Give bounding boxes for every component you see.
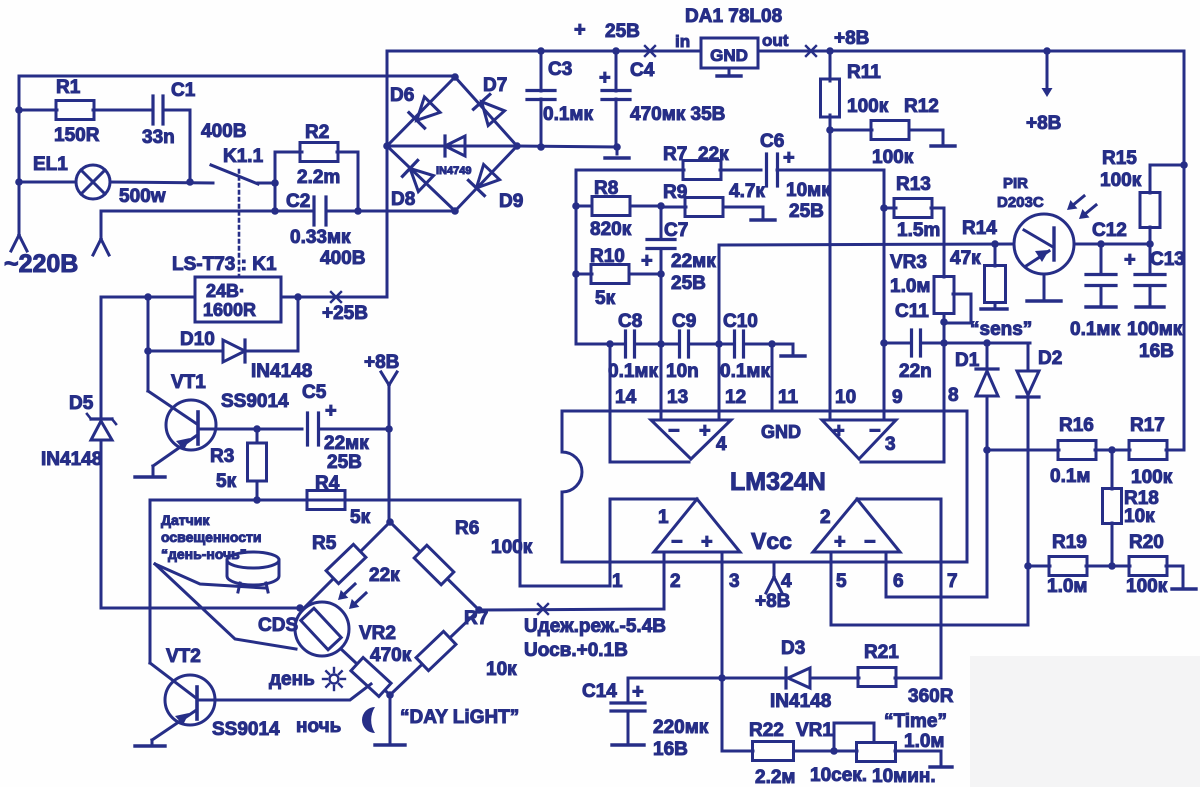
- node R19 left: [1024, 562, 1032, 570]
- node C12: [1097, 240, 1105, 248]
- svg-text:0.1мк: 0.1мк: [608, 361, 658, 382]
- node bridge left: [383, 142, 391, 150]
- wire bridge right to ground: [517, 146, 617, 147]
- svg-text:22к: 22к: [698, 144, 729, 165]
- regulator DA1 78L08: [701, 38, 758, 68]
- svg-text:PIR: PIR: [1003, 175, 1028, 192]
- resistor R2: [300, 143, 338, 162]
- node bridge bottom: [451, 207, 459, 215]
- svg-text:9: 9: [892, 387, 903, 408]
- resistor R5: [326, 544, 366, 583]
- node C5 right: [385, 425, 393, 433]
- node R18 bottom: [1108, 562, 1116, 570]
- resistor R16: [987, 449, 1059, 452]
- svg-text:+: +: [699, 420, 711, 442]
- svg-text:1: 1: [658, 507, 669, 528]
- svg-text:−: −: [668, 420, 680, 442]
- svg-text:VT1: VT1: [171, 372, 206, 393]
- svg-text:+: +: [783, 147, 795, 169]
- svg-text:Датчик: Датчик: [161, 512, 210, 528]
- wire C1 to lamp row: [163, 110, 190, 182]
- node R8 right: [657, 202, 665, 210]
- wire bridge frame: [387, 77, 517, 211]
- diode D6: [417, 97, 440, 120]
- svg-text:R14: R14: [962, 218, 997, 239]
- capacitor C12: [1100, 244, 1103, 272]
- node pin13 top: [657, 340, 665, 348]
- svg-text:D2: D2: [1038, 348, 1062, 369]
- wire R11 vertical: [829, 51, 832, 81]
- ground lamp bridge: [389, 695, 392, 744]
- node C3 top: [537, 47, 545, 55]
- wire pin3 column: [721, 562, 724, 751]
- svg-text:470мк 35В: 470мк 35В: [630, 104, 725, 125]
- svg-text:out: out: [762, 31, 789, 50]
- wire R1 row: [19, 109, 57, 112]
- svg-text:IN4749: IN4749: [436, 165, 471, 177]
- sensor cylinder: [227, 552, 279, 568]
- svg-text:+: +: [632, 681, 644, 703]
- resistor VR3: [934, 277, 954, 314]
- svg-text:2: 2: [820, 507, 831, 528]
- svg-text:100к: 100к: [1126, 576, 1168, 597]
- node R14: [991, 240, 999, 248]
- diode D10: [223, 340, 245, 362]
- svg-text:VT2: VT2: [166, 646, 201, 667]
- svg-text:GND: GND: [710, 46, 748, 65]
- resistor VR2: [351, 658, 391, 697]
- svg-text:R10: R10: [590, 246, 625, 267]
- svg-text:2: 2: [670, 571, 681, 592]
- node R17 left: [1108, 446, 1116, 454]
- svg-text:400B: 400B: [201, 121, 246, 142]
- x mark +25B: [331, 292, 341, 302]
- svg-text:C7: C7: [664, 220, 688, 241]
- svg-text:1: 1: [612, 571, 623, 592]
- node pin12 top: [715, 340, 723, 348]
- callout lines: [155, 564, 265, 588]
- node C1 bottom: [186, 178, 194, 186]
- node C3 bottom: [537, 143, 545, 151]
- svg-text:C14: C14: [582, 681, 617, 702]
- wire R22 row: [722, 750, 753, 753]
- svg-text:0.1мк: 0.1мк: [543, 104, 593, 125]
- svg-text:100к: 100к: [491, 537, 533, 558]
- node R10 right: [657, 270, 665, 278]
- resistor R20: [1129, 557, 1167, 576]
- svg-text:+: +: [834, 531, 846, 553]
- capacitor C3: [540, 51, 543, 91]
- wire U1a output pin1 loop: [150, 499, 697, 586]
- node +8B tap: [1043, 47, 1051, 55]
- terminal +8B fork: [381, 372, 389, 385]
- svg-text:Vcc: Vcc: [751, 528, 792, 554]
- svg-text:500w: 500w: [119, 186, 166, 207]
- diode IN4749 center: [387, 145, 517, 148]
- svg-text:25В: 25В: [789, 201, 824, 222]
- op-amp U1a triangle: [654, 499, 740, 552]
- resistor R8: [576, 205, 592, 208]
- diode D7: [482, 102, 505, 126]
- svg-text:+8В: +8В: [1026, 113, 1061, 134]
- capacitor C9: [678, 331, 681, 357]
- moon symbol: [362, 707, 375, 733]
- node VT1 base: [253, 425, 261, 433]
- node C4 top: [612, 47, 620, 55]
- wire top-left horizontal to bridge top: [19, 75, 455, 78]
- svg-text:C8: C8: [618, 311, 642, 332]
- svg-text:−: −: [671, 531, 683, 553]
- svg-text:22мк: 22мк: [324, 433, 369, 454]
- wire R2 bypass loop: [275, 152, 302, 211]
- svg-text:4: 4: [716, 434, 727, 455]
- svg-text:0.1м: 0.1м: [1050, 466, 1090, 487]
- wire C14 branch: [628, 678, 722, 701]
- wire relay right: [281, 296, 387, 299]
- svg-text:100мк: 100мк: [1127, 319, 1183, 340]
- op-amp U1d triangle: [651, 420, 731, 459]
- svg-text:+: +: [574, 19, 586, 41]
- resistor R13: [884, 207, 896, 210]
- svg-text:16В: 16В: [653, 739, 688, 760]
- svg-text:10сек.: 10сек.: [810, 765, 867, 786]
- node C2 right: [354, 207, 362, 215]
- svg-text:D5: D5: [69, 393, 94, 414]
- wire U1b output pin7: [857, 499, 941, 678]
- svg-text:150R: 150R: [54, 125, 100, 146]
- svg-text:освещенности: освещенности: [161, 529, 262, 545]
- sun symbol: [330, 675, 339, 684]
- svg-text:100к: 100к: [1100, 170, 1142, 191]
- svg-text:−: −: [864, 531, 876, 553]
- svg-text:EL1: EL1: [33, 154, 68, 175]
- capacitor C1: [151, 96, 154, 124]
- svg-text:22к: 22к: [369, 565, 400, 586]
- wire C6 to pin9 column: [777, 169, 884, 172]
- svg-text:470к: 470к: [370, 645, 412, 666]
- wire pin6 route: [886, 450, 987, 597]
- svg-text:DA1 78L08: DA1 78L08: [685, 6, 782, 27]
- svg-text:1.0м: 1.0м: [904, 731, 944, 752]
- svg-text:LM324N: LM324N: [730, 468, 826, 496]
- wire pin14 into IC: [610, 344, 689, 462]
- wire pin5 route: [831, 562, 1028, 625]
- resistor R21: [858, 668, 896, 687]
- node relay right: [294, 293, 302, 301]
- svg-text:R2: R2: [305, 122, 329, 143]
- svg-text:820к: 820к: [590, 219, 632, 240]
- svg-text:D9: D9: [499, 191, 523, 212]
- resistor R14: [994, 244, 997, 266]
- svg-text:C2: C2: [286, 191, 310, 212]
- svg-text:R22: R22: [749, 720, 784, 741]
- capacitor C13: [1149, 244, 1152, 272]
- svg-text:6: 6: [893, 571, 904, 592]
- x mark after DA1: [806, 46, 816, 56]
- svg-text:Uдеж.реж.-5.4В: Uдеж.реж.-5.4В: [524, 616, 666, 637]
- svg-text:C10: C10: [723, 311, 758, 332]
- resistor R17: [1129, 441, 1167, 460]
- svg-text:C3: C3: [548, 59, 572, 80]
- node pin11 top: [768, 340, 776, 348]
- svg-text:день: день: [269, 669, 315, 690]
- node C2 left: [271, 207, 279, 215]
- op-amp IC LM324N body: [562, 411, 967, 562]
- svg-text:R13: R13: [896, 174, 931, 195]
- svg-text:R16: R16: [1059, 415, 1094, 436]
- svg-text:D7: D7: [483, 75, 507, 96]
- svg-text:+8В: +8В: [834, 28, 869, 49]
- node CDS: [296, 604, 304, 612]
- diode D3: [722, 677, 786, 680]
- svg-text:25В: 25В: [327, 452, 362, 473]
- wire bridge left up to +25 rail: [387, 51, 541, 297]
- svg-text:8: 8: [948, 385, 959, 406]
- svg-text:3: 3: [729, 571, 740, 592]
- svg-text:220мк: 220мк: [653, 717, 709, 738]
- transistor VT2: [165, 675, 215, 725]
- svg-text:+: +: [325, 400, 337, 422]
- wire +8B column: [388, 385, 391, 429]
- svg-text:+8В: +8В: [755, 591, 790, 612]
- node bridge2 top: [386, 518, 394, 526]
- svg-text:ночь: ночь: [296, 716, 341, 737]
- svg-text:R12: R12: [904, 96, 939, 117]
- svg-text:5к: 5к: [595, 288, 616, 309]
- svg-text:R7: R7: [663, 144, 687, 165]
- svg-text:10n: 10n: [666, 361, 699, 382]
- svg-text:C9: C9: [672, 311, 696, 332]
- svg-text:1.0м: 1.0м: [890, 276, 930, 297]
- x mark U level: [538, 604, 548, 614]
- svg-text:C4: C4: [630, 60, 655, 81]
- relay link dotted: [238, 170, 241, 276]
- node R16 left: [983, 446, 991, 454]
- svg-text:GND: GND: [761, 422, 801, 442]
- node VR1 left: [830, 747, 838, 755]
- capacitor C10: [733, 331, 736, 357]
- node R3 bottom: [253, 496, 261, 504]
- wire pin11 leg: [771, 344, 774, 411]
- light arrows PIR: [1074, 196, 1084, 204]
- diode D5 zener: [100, 297, 103, 419]
- svg-text:IN4148: IN4148: [770, 691, 831, 712]
- svg-text:22n: 22n: [899, 361, 932, 382]
- capacitor C14: [611, 701, 645, 704]
- svg-text:R11: R11: [847, 62, 881, 83]
- wire pin2 to lamp bridge: [479, 562, 664, 610]
- switch K1.1: [211, 165, 258, 184]
- svg-text:0.33мк: 0.33мк: [290, 227, 351, 248]
- capacitor C8: [624, 331, 627, 357]
- svg-text:VR2: VR2: [359, 623, 396, 644]
- node R15 top: [1180, 161, 1188, 169]
- resistor R10: [576, 273, 592, 276]
- resistor R22: [753, 742, 794, 761]
- node pin8 top: [940, 339, 948, 347]
- resistor R7b: [416, 631, 456, 670]
- op-amp U1b triangle: [813, 499, 900, 552]
- svg-text:47к: 47к: [950, 248, 981, 269]
- svg-text:R3: R3: [210, 446, 234, 467]
- wire pin4 +8B: [773, 562, 776, 577]
- resistor R7: [683, 161, 721, 180]
- node switch: [271, 179, 279, 187]
- svg-text:360R: 360R: [908, 686, 954, 707]
- svg-text:C12: C12: [1092, 220, 1127, 241]
- svg-text:R15: R15: [1102, 148, 1137, 169]
- svg-text:D1: D1: [955, 350, 980, 371]
- svg-text:33n: 33n: [142, 127, 175, 148]
- svg-text:D6: D6: [390, 85, 414, 106]
- svg-text:CDS: CDS: [258, 615, 298, 636]
- node A2: [15, 178, 23, 186]
- light arrows CDS: [345, 584, 355, 594]
- capacitor C7: [660, 206, 663, 237]
- svg-text:R17: R17: [1130, 415, 1165, 436]
- wire R7 row: [575, 170, 578, 344]
- node bridge right: [513, 142, 521, 150]
- resistor R19: [1028, 565, 1050, 568]
- resistor R6: [414, 545, 454, 585]
- svg-text:R6: R6: [455, 518, 479, 539]
- svg-text:7: 7: [947, 571, 958, 592]
- svg-text:+: +: [599, 67, 611, 89]
- resistor R4: [307, 491, 345, 510]
- node C11 left: [880, 339, 888, 347]
- svg-text:R21: R21: [864, 642, 899, 663]
- terminal mains 1: [11, 235, 19, 251]
- wire U1a legs: [663, 552, 666, 562]
- wire left vertical mains: [18, 76, 21, 234]
- resistor R11: [821, 79, 840, 117]
- node VR3 tap: [940, 318, 948, 326]
- svg-text:100к: 100к: [1131, 467, 1173, 488]
- resistor R18: [1111, 450, 1114, 489]
- svg-text:1.5m: 1.5m: [897, 220, 940, 241]
- svg-text:12: 12: [725, 387, 746, 408]
- node R13 left: [880, 204, 888, 212]
- wire D10 branch: [147, 297, 150, 351]
- svg-text:1600R: 1600R: [203, 300, 256, 320]
- resistor R12: [830, 129, 872, 132]
- wire U1b legs: [830, 552, 833, 562]
- svg-text:SS9014: SS9014: [221, 391, 289, 412]
- svg-text:C11: C11: [895, 301, 929, 322]
- x mark before DA1: [645, 46, 655, 56]
- svg-text:16В: 16В: [1139, 341, 1174, 362]
- svg-text:R5: R5: [312, 533, 337, 554]
- wire U1c output to pin8: [861, 343, 944, 462]
- svg-text:in: in: [675, 32, 690, 51]
- svg-text:IN4148: IN4148: [41, 449, 102, 470]
- wire sens row: [944, 342, 1030, 345]
- svg-text:VR3: VR3: [890, 252, 927, 273]
- svg-text:IN4148: IN4148: [251, 361, 312, 382]
- wire mains2 row: [101, 211, 314, 238]
- node sens: [983, 339, 991, 347]
- svg-text:2.2m: 2.2m: [297, 167, 340, 188]
- wire PIR to C13: [1074, 243, 1150, 246]
- node R8 left: [572, 202, 580, 210]
- svg-text:0.1мк: 0.1мк: [720, 361, 770, 382]
- svg-text:−: −: [869, 420, 881, 442]
- node relay left: [144, 293, 152, 301]
- wire VT2 base column: [149, 500, 152, 663]
- node D10 left: [144, 347, 152, 355]
- svg-text:C13: C13: [1150, 249, 1185, 270]
- node bridge2 right: [475, 606, 483, 614]
- sensor PIR D203C: [1014, 214, 1074, 274]
- svg-text:+25В: +25В: [322, 303, 368, 324]
- svg-text:“Time”: “Time”: [884, 711, 947, 732]
- shaded background region bottom right: [970, 656, 1200, 787]
- svg-text:VR1: VR1: [796, 720, 833, 741]
- lamp EL1: [76, 165, 110, 199]
- svg-text:~220В: ~220В: [4, 250, 78, 278]
- svg-text:R19: R19: [1052, 532, 1087, 553]
- svg-text:10к: 10к: [1124, 506, 1155, 527]
- node pin14: [606, 340, 614, 348]
- wire pin12 column up: [719, 244, 1014, 420]
- svg-text:SS9014: SS9014: [212, 719, 280, 740]
- ground C4: [616, 147, 619, 154]
- svg-text:R7: R7: [464, 608, 488, 629]
- diode D1: [986, 343, 989, 369]
- svg-text:0.1мк: 0.1мк: [1070, 319, 1120, 340]
- node C4 bottom: [613, 143, 621, 151]
- node R12: [826, 126, 834, 134]
- svg-text:R9: R9: [663, 182, 687, 203]
- svg-text:25В: 25В: [605, 21, 640, 42]
- wire relay row left: [101, 296, 195, 299]
- capacitor C11: [884, 342, 911, 345]
- node bridge top: [451, 73, 459, 81]
- svg-text:13: 13: [667, 387, 688, 408]
- wire right rail: [1183, 51, 1186, 450]
- svg-text:4.7к: 4.7к: [729, 181, 765, 202]
- svg-text:10мк: 10мк: [786, 180, 831, 201]
- svg-text:14: 14: [615, 387, 637, 408]
- node C13: [1146, 240, 1154, 248]
- resistor R15: [1150, 165, 1184, 193]
- svg-text:5: 5: [836, 571, 847, 592]
- node R10 left: [572, 270, 580, 278]
- relay K1 coil: [195, 277, 281, 322]
- terminal mains 2: [93, 239, 101, 255]
- svg-text:22мк: 22мк: [671, 251, 716, 272]
- resistor R9: [661, 206, 686, 209]
- wire top rail to DA1: [541, 50, 701, 53]
- svg-text:D8: D8: [391, 189, 415, 210]
- diode D9: [476, 164, 499, 188]
- svg-text:C5: C5: [302, 382, 327, 403]
- svg-text:+: +: [1124, 249, 1136, 271]
- svg-text:+: +: [701, 531, 713, 553]
- svg-text:“sens”: “sens”: [970, 319, 1032, 340]
- svg-text:2.2м: 2.2м: [755, 767, 795, 787]
- svg-text:R20: R20: [1129, 532, 1164, 553]
- capacitor C2: [312, 197, 315, 225]
- svg-text:4: 4: [781, 571, 792, 592]
- svg-text:100к: 100к: [872, 147, 914, 168]
- node bridge2 bottom: [386, 691, 394, 699]
- svg-text:R8: R8: [594, 178, 618, 199]
- photoresistor CDS: [295, 602, 349, 656]
- wire pin13 column: [660, 274, 663, 420]
- svg-text:“DAY LiGHT”: “DAY LiGHT”: [400, 707, 519, 728]
- wire C8 row: [576, 343, 625, 346]
